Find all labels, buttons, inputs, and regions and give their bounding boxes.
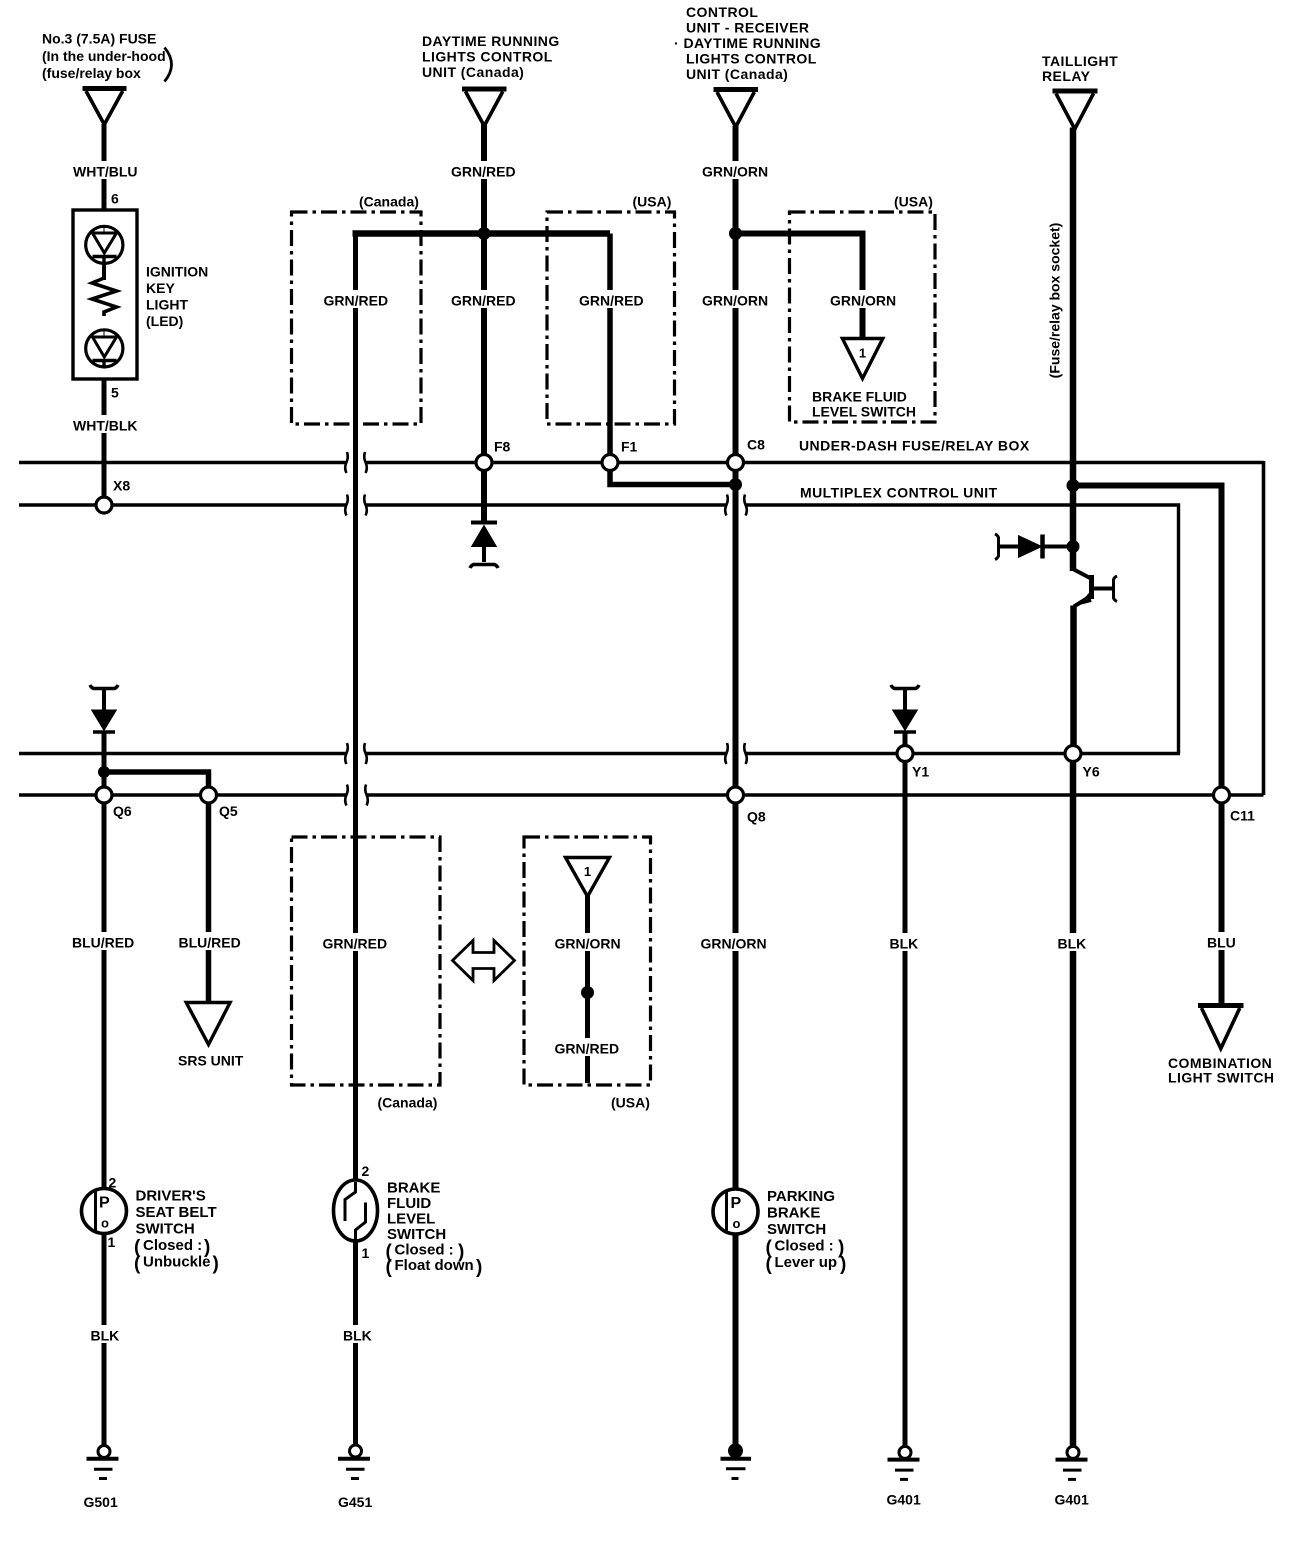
svg-text:Lever up: Lever up bbox=[775, 1254, 838, 1271]
connector X8 bbox=[96, 497, 112, 513]
svg-text:(USA): (USA) bbox=[611, 1095, 650, 1111]
svg-text:5: 5 bbox=[111, 385, 119, 401]
wire label GRN/RED center bbox=[448, 290, 520, 309]
LED 2 of ignition key light bbox=[86, 330, 123, 367]
wire label BLU on C11 wire bbox=[1205, 932, 1238, 951]
svg-text:): ) bbox=[213, 1254, 219, 1275]
wire GRN/ORN branch to brake fluid level switch (USA) bbox=[736, 234, 863, 340]
svg-text:GRN/RED: GRN/RED bbox=[324, 293, 389, 309]
svg-text:UNDER-DASH FUSE/RELAY BOX: UNDER-DASH FUSE/RELAY BOX bbox=[799, 438, 1030, 454]
label brake fluid level switch (top) bbox=[812, 389, 916, 420]
label fuse No.3 bbox=[42, 31, 172, 82]
svg-text:Closed :: Closed : bbox=[775, 1238, 834, 1255]
dashed box (USA) around brake fluid level switch branch bbox=[790, 212, 936, 422]
wire label GRN/RED at DRL trunk bbox=[448, 161, 520, 180]
wire WHT/BLU-WHT/BLK from fuse through ignition key light to X8 bbox=[102, 124, 107, 497]
svg-text:(LED): (LED) bbox=[146, 313, 183, 329]
connector F1 bbox=[602, 455, 618, 471]
wire label BLK on seat belt wire bbox=[88, 1325, 121, 1344]
svg-text:UNIT - RECEIVER: UNIT - RECEIVER bbox=[686, 20, 809, 36]
svg-text:BLK: BLK bbox=[91, 1328, 120, 1344]
svg-text:SWITCH: SWITCH bbox=[136, 1221, 195, 1238]
wire fragment GRN/ORN-GRN/RED inside USA bottom box bbox=[585, 895, 590, 1083]
svg-text:GRN/RED: GRN/RED bbox=[323, 936, 388, 952]
svg-text:GRN/ORN: GRN/ORN bbox=[555, 936, 621, 952]
junction node on taillight wire at C11 link bbox=[1067, 479, 1080, 492]
svg-text:o: o bbox=[733, 1216, 741, 1231]
svg-text:BLU/RED: BLU/RED bbox=[72, 935, 134, 951]
wire label GRN/ORN in USA bottom box bbox=[552, 933, 624, 952]
junction node on GRN/RED trunk at x=484 bbox=[478, 227, 491, 240]
svg-text:BLU: BLU bbox=[1207, 935, 1236, 951]
connector triangle 1 (bottom USA box) bbox=[566, 858, 610, 897]
dashed box (USA) bottom around GRN/ORN-GRN/RED wire bbox=[524, 837, 651, 1085]
svg-text:(In the under-hood: (In the under-hood bbox=[42, 48, 166, 64]
svg-text:GRN/ORN: GRN/ORN bbox=[702, 293, 768, 309]
svg-text:· DAYTIME RUNNING: · DAYTIME RUNNING bbox=[674, 35, 821, 51]
svg-text:MULTIPLEX CONTROL UNIT: MULTIPLEX CONTROL UNIT bbox=[800, 485, 998, 501]
svg-text:LIGHTS CONTROL: LIGHTS CONTROL bbox=[422, 49, 553, 65]
svg-text:GRN/RED: GRN/RED bbox=[451, 293, 516, 309]
svg-text:): ) bbox=[840, 1254, 846, 1275]
wire from Q6 diode branch down to seat belt switch and ground bbox=[102, 733, 107, 1446]
connector C8 bbox=[728, 455, 744, 471]
ground G401 right bbox=[1056, 1446, 1088, 1479]
wire label BLU/RED right bbox=[176, 932, 242, 951]
wire GRN/RED (Canada) main vertical from trunk to brake fluid level switch and ground G451 bbox=[353, 231, 358, 1445]
svg-text:Float down: Float down bbox=[395, 1257, 474, 1274]
svg-text:Y6: Y6 bbox=[1083, 764, 1100, 780]
diode feeding transistor inside multiplex control unit bbox=[995, 534, 1073, 560]
svg-text:RELAY: RELAY bbox=[1042, 68, 1091, 84]
LED 1 of ignition key light bbox=[86, 226, 123, 263]
label combination light switch bbox=[1168, 1055, 1275, 1086]
svg-text:): ) bbox=[476, 1257, 482, 1278]
label parking brake switch bbox=[766, 1188, 847, 1275]
junction node where F1 wire joins C8 wire bbox=[729, 478, 742, 491]
wire label GRN/RED in Canada box bbox=[321, 290, 391, 309]
connector Q6 bbox=[96, 787, 112, 803]
svg-text:(fuse/relay box: (fuse/relay box bbox=[42, 65, 141, 81]
label control unit receiver bbox=[674, 4, 821, 82]
under-dash fuse/relay box boundary line A with right edge bbox=[19, 461, 1264, 795]
svg-text:No.3 (7.5A) FUSE: No.3 (7.5A) FUSE bbox=[42, 31, 156, 47]
SRS unit connector triangle bbox=[186, 1003, 230, 1045]
svg-text:BRAKE: BRAKE bbox=[767, 1205, 820, 1222]
svg-text:(USA): (USA) bbox=[894, 194, 933, 210]
svg-text:PARKING: PARKING bbox=[767, 1188, 835, 1205]
svg-text:LIGHTS CONTROL: LIGHTS CONTROL bbox=[686, 51, 817, 67]
svg-text:SWITCH: SWITCH bbox=[387, 1226, 446, 1243]
ground G451 bbox=[338, 1445, 370, 1479]
junction node at transistor diode bbox=[1067, 540, 1080, 553]
chassis ground at parking brake wire bbox=[721, 1445, 752, 1479]
wire label GRN/ORN on Q8 wire bbox=[698, 933, 771, 952]
wire from taillight relay through multiplex transistor to Y6 and ground G401 bbox=[1070, 128, 1077, 1447]
dashed box (Canada) top around GRN/RED branch bbox=[292, 212, 422, 424]
pass-through break hooks on line B at x=736 bbox=[725, 495, 747, 516]
svg-text:G401: G401 bbox=[1055, 1492, 1089, 1508]
wire label BLK on Y6 wire bbox=[1055, 933, 1088, 952]
wire label WHT/BLU bbox=[71, 161, 141, 180]
parking brake switch bbox=[713, 1189, 758, 1234]
connector Q8 bbox=[728, 787, 744, 803]
svg-text:F8: F8 bbox=[494, 439, 511, 455]
svg-text:1: 1 bbox=[362, 1245, 370, 1261]
svg-text:GRN/RED: GRN/RED bbox=[555, 1041, 620, 1057]
wire inside ignition key light box bbox=[102, 264, 106, 281]
brake fluid level switch bbox=[334, 1180, 378, 1241]
wire BLK from Y1 diode to ground G401 bbox=[903, 733, 908, 1447]
connector C11 bbox=[1214, 787, 1230, 803]
dashed box (Canada) bottom around GRN/RED wire bbox=[292, 837, 441, 1085]
svg-text:BLK: BLK bbox=[343, 1328, 372, 1344]
svg-text:(USA): (USA) bbox=[633, 194, 672, 210]
diode on Q6 branch inside multiplex control unit bbox=[90, 685, 118, 732]
svg-text:TAILLIGHT: TAILLIGHT bbox=[1042, 53, 1118, 69]
double arrow between Canada and USA option boxes bbox=[453, 941, 515, 981]
svg-text:GRN/ORN: GRN/ORN bbox=[830, 293, 896, 309]
svg-text:SWITCH: SWITCH bbox=[767, 1221, 826, 1238]
transistor inside multiplex control unit bbox=[1073, 569, 1117, 607]
svg-text:6: 6 bbox=[111, 191, 119, 207]
pass-through break hooks on line A at x=356 bbox=[345, 452, 367, 473]
svg-text:(: ( bbox=[134, 1254, 141, 1275]
svg-text:Unbuckle: Unbuckle bbox=[143, 1254, 211, 1271]
wire label GRN/RED in USA box bbox=[576, 290, 648, 309]
svg-text:(Canada): (Canada) bbox=[359, 194, 419, 210]
svg-text:Q8: Q8 bbox=[747, 809, 766, 825]
svg-text:FLUID: FLUID bbox=[387, 1195, 431, 1212]
svg-text:Closed :: Closed : bbox=[395, 1242, 454, 1259]
connector Y6 bbox=[1065, 746, 1081, 762]
svg-text:IGNITION: IGNITION bbox=[146, 264, 208, 280]
svg-text:UNIT (Canada): UNIT (Canada) bbox=[686, 66, 788, 82]
label taillight relay bbox=[1042, 53, 1118, 84]
svg-text:Y1: Y1 bbox=[912, 764, 929, 780]
svg-text:(Canada): (Canada) bbox=[378, 1095, 438, 1111]
connector Q5 bbox=[201, 787, 217, 803]
wire label GRN/ORN at receiver trunk bbox=[700, 161, 773, 180]
svg-text:DAYTIME RUNNING: DAYTIME RUNNING bbox=[422, 33, 560, 49]
pass-through break hooks on line C at x=736 bbox=[725, 743, 747, 764]
svg-text:GRN/RED: GRN/RED bbox=[451, 164, 516, 180]
svg-text:Closed :: Closed : bbox=[143, 1237, 202, 1254]
ground G501 bbox=[87, 1446, 119, 1479]
svg-text:LEVEL: LEVEL bbox=[387, 1211, 435, 1228]
junction node at Q6 branch bbox=[98, 766, 110, 778]
svg-text:SEAT BELT: SEAT BELT bbox=[136, 1204, 217, 1221]
svg-text:UNIT (Canada): UNIT (Canada) bbox=[422, 64, 524, 80]
trunk wire GRN/RED horizontal Canada-USA bbox=[353, 230, 611, 237]
svg-text:LEVEL SWITCH: LEVEL SWITCH bbox=[812, 404, 916, 420]
svg-text:o: o bbox=[101, 1216, 109, 1231]
svg-text:LIGHT SWITCH: LIGHT SWITCH bbox=[1168, 1070, 1275, 1086]
wire link to C11 and BLU drop to combination light switch bbox=[1073, 486, 1222, 1007]
fuse No.3 connector triangle bbox=[83, 89, 127, 125]
svg-text:GRN/RED: GRN/RED bbox=[579, 293, 644, 309]
wire label BLK on brake fluid wire bbox=[340, 1325, 373, 1344]
control unit receiver connector triangle bbox=[714, 90, 759, 128]
svg-text:(Fuse/relay box socket): (Fuse/relay box socket) bbox=[1047, 223, 1063, 379]
diode on Y1 branch inside multiplex control unit bbox=[891, 685, 919, 732]
svg-text:(: ( bbox=[766, 1254, 773, 1275]
svg-text:BLK: BLK bbox=[890, 936, 919, 952]
connector F8 bbox=[476, 455, 492, 471]
svg-text:KEY: KEY bbox=[146, 280, 175, 296]
svg-text:2: 2 bbox=[109, 1175, 117, 1191]
multiplex control unit boundary line B with right edge bbox=[19, 503, 1179, 753]
svg-text:LIGHT: LIGHT bbox=[146, 297, 188, 313]
wire label BLU/RED left bbox=[70, 932, 136, 951]
wire GRN/ORN trunk from control unit receiver down through C8 and Q8 to parking brake switch and ground bbox=[733, 126, 739, 1446]
svg-text:(: ( bbox=[386, 1257, 393, 1278]
svg-text:BLU/RED: BLU/RED bbox=[179, 935, 241, 951]
ignition key light component box bbox=[73, 210, 137, 379]
svg-text:G451: G451 bbox=[338, 1494, 372, 1510]
svg-text:BLK: BLK bbox=[1058, 936, 1087, 952]
resistor of ignition key light bbox=[92, 278, 117, 316]
wire label GRN/ORN in USA brake fluid box bbox=[828, 290, 901, 309]
pass-through break hooks on line C at x=356 bbox=[345, 743, 367, 764]
svg-text:BRAKE FLUID: BRAKE FLUID bbox=[812, 389, 907, 405]
multiplex control unit boundary line C bbox=[19, 752, 1180, 755]
svg-text:G401: G401 bbox=[887, 1492, 921, 1508]
wire GRN/RED trunk from daytime running lights control unit bbox=[481, 124, 487, 521]
wire GRN/RED (USA) branch to F1 and link to C8 wire bbox=[610, 234, 736, 485]
daytime running lights control unit connector triangle bbox=[462, 89, 507, 126]
brake fluid level switch connector triangle 1 (top USA box) bbox=[842, 339, 882, 379]
svg-text:DRIVER'S: DRIVER'S bbox=[136, 1188, 206, 1205]
svg-text:GRN/ORN: GRN/ORN bbox=[702, 164, 768, 180]
svg-text:G501: G501 bbox=[84, 1494, 118, 1510]
label driver's seat belt switch bbox=[134, 1188, 219, 1275]
svg-text:Q5: Q5 bbox=[219, 803, 238, 819]
wire Q6-Q5 link and BLU/RED drop to SRS unit bbox=[104, 772, 209, 1003]
label ignition key light bbox=[146, 264, 208, 330]
svg-text:C11: C11 bbox=[1230, 808, 1255, 824]
svg-text:1: 1 bbox=[584, 864, 591, 879]
svg-text:CONTROL: CONTROL bbox=[686, 4, 758, 20]
wire label WHT/BLK bbox=[71, 415, 141, 434]
under-dash fuse/relay box boundary line D bbox=[19, 793, 1264, 796]
svg-text:X8: X8 bbox=[113, 478, 130, 494]
pass-through break hooks on line D at x=356 bbox=[345, 785, 368, 806]
svg-text:P: P bbox=[99, 1195, 110, 1212]
svg-text:GRN/ORN: GRN/ORN bbox=[701, 936, 767, 952]
wire label GRN/RED in Canada bottom box bbox=[320, 933, 391, 952]
wire label GRN/RED in USA bottom box bbox=[552, 1038, 624, 1057]
label brake fluid level switch (bottom) bbox=[386, 1180, 483, 1279]
connector Y1 bbox=[897, 746, 913, 762]
svg-text:WHT/BLK: WHT/BLK bbox=[73, 418, 138, 434]
junction splice node in USA bottom box bbox=[581, 986, 594, 999]
combination light switch connector triangle bbox=[1198, 1006, 1244, 1049]
svg-text:1: 1 bbox=[108, 1234, 116, 1250]
svg-text:WHT/BLU: WHT/BLU bbox=[73, 164, 138, 180]
svg-text:1: 1 bbox=[859, 346, 866, 361]
dashed box (USA) top around GRN/RED branch bbox=[547, 212, 675, 424]
diode below F8 inside multiplex control unit bbox=[470, 523, 498, 569]
junction node on GRN/ORN trunk at x=735.5 bbox=[729, 227, 742, 240]
label daytime running lights control unit bbox=[422, 33, 560, 80]
svg-text:2: 2 bbox=[362, 1163, 370, 1179]
driver's seat belt switch bbox=[82, 1189, 127, 1234]
wire label BLK on Y1 wire bbox=[887, 933, 920, 952]
ground G401 left bbox=[888, 1446, 920, 1479]
svg-text:Q6: Q6 bbox=[113, 803, 132, 819]
svg-text:BRAKE: BRAKE bbox=[387, 1180, 440, 1197]
svg-text:C8: C8 bbox=[747, 437, 765, 453]
wire label GRN/ORN on C8 wire bbox=[700, 290, 773, 309]
svg-text:F1: F1 bbox=[621, 439, 638, 455]
taillight relay connector triangle bbox=[1053, 91, 1098, 129]
pass-through break hooks on line B at x=356 bbox=[345, 495, 367, 516]
svg-text:SRS UNIT: SRS UNIT bbox=[178, 1053, 244, 1069]
svg-text:P: P bbox=[731, 1195, 742, 1212]
